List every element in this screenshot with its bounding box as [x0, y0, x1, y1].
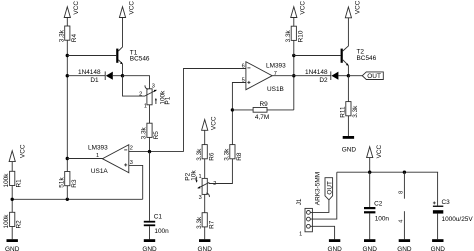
svg-text:C3: C3	[442, 199, 451, 206]
svg-text:C2: C2	[374, 200, 383, 207]
power VCC (R4 branch)	[64, 1, 80, 26]
wire US1B output	[272, 75, 294, 77]
diode D2 1N4148	[305, 69, 348, 84]
wire US1A pin2 row	[129, 150, 184, 153]
wire rail to C3	[437, 172, 439, 205]
net label OUT (right)	[362, 72, 383, 80]
wire US1B pin5 branch	[231, 83, 246, 145]
svg-text:3.3k: 3.3k	[352, 105, 359, 118]
svg-text:VCC: VCC	[300, 1, 307, 15]
wire R1 to node	[11, 186, 13, 200]
svg-text:R7: R7	[209, 220, 216, 229]
wire output node to R11	[347, 76, 349, 102]
capacitor C1 100n	[144, 214, 169, 236]
ground (R11)	[342, 136, 357, 153]
svg-text:R1: R1	[16, 179, 23, 188]
wire US1A output	[67, 158, 103, 160]
wire C1 to ground	[149, 226, 151, 239]
svg-text:2: 2	[139, 91, 142, 97]
svg-text:GND: GND	[142, 246, 157, 251]
resistor R8	[223, 145, 243, 161]
ground (C2)	[363, 239, 378, 251]
wire R5 to inverting node	[149, 137, 151, 151]
svg-text:ARK3-5MM: ARK3-5MM	[315, 172, 322, 205]
wire supply rail	[337, 171, 438, 174]
pin 8 stub (US1 V+)	[399, 172, 405, 199]
svg-text:1N4148: 1N4148	[305, 69, 328, 76]
capacitor C2 100n	[364, 200, 389, 222]
svg-text:8: 8	[399, 191, 405, 194]
svg-text:6: 6	[242, 64, 245, 70]
diode D1 1N4148	[78, 69, 123, 84]
svg-text:3.3k: 3.3k	[141, 126, 148, 139]
svg-text:LM393: LM393	[88, 145, 108, 152]
wire emitter junction to P1 top	[123, 76, 150, 89]
svg-text:3.3k: 3.3k	[196, 216, 203, 229]
ground (R7)	[198, 239, 213, 251]
svg-text:C1: C1	[154, 214, 163, 221]
wire J1 pin1 to OUT tag	[310, 200, 329, 213]
wire R7 to ground	[204, 227, 206, 239]
svg-text:OUT: OUT	[326, 181, 333, 195]
wire base T1	[67, 55, 116, 57]
resistor R9 4.7M	[232, 101, 293, 121]
capacitor C3 1000u/25V	[433, 199, 473, 223]
svg-text:3: 3	[152, 84, 155, 90]
svg-text:R4: R4	[71, 34, 78, 43]
svg-text:VCC: VCC	[73, 1, 80, 15]
wire pin2 riser to US1B pin6	[184, 69, 246, 152]
svg-text:3.3k: 3.3k	[58, 29, 65, 42]
power VCC (R1 branch)	[9, 144, 26, 171]
wire divider row	[11, 198, 143, 201]
svg-text:R9: R9	[260, 101, 269, 108]
svg-text:VCC: VCC	[128, 1, 135, 15]
svg-text:D1: D1	[90, 77, 99, 84]
svg-text:10k: 10k	[191, 170, 198, 181]
svg-text:GND: GND	[5, 246, 20, 251]
resistor R6	[196, 145, 216, 161]
ground (R2)	[5, 239, 20, 251]
power VCC (mid divider)	[202, 116, 218, 145]
svg-text:VCC: VCC	[376, 144, 383, 158]
wire rail to C2	[369, 172, 371, 207]
wire R2 to ground	[11, 227, 13, 240]
svg-text:VCC: VCC	[210, 116, 217, 130]
svg-text:100n: 100n	[375, 215, 390, 222]
svg-text:1000u/25V: 1000u/25V	[442, 216, 474, 223]
wire J1 pin2 to rail	[310, 172, 337, 219]
wire C3 to ground	[437, 214, 439, 240]
svg-text:D2: D2	[319, 77, 328, 84]
svg-text:R5: R5	[153, 131, 160, 140]
wire base T2	[294, 55, 341, 57]
svg-text:J1: J1	[296, 198, 303, 205]
svg-text:R6: R6	[209, 152, 216, 161]
svg-text:4,7M: 4,7M	[255, 114, 269, 121]
wire output node to tag	[348, 75, 362, 77]
svg-text:R8: R8	[236, 152, 243, 161]
svg-text:GND: GND	[431, 246, 446, 251]
svg-text:GND: GND	[342, 146, 357, 153]
wire T1 collector	[118, 18, 122, 52]
svg-text:3.3k: 3.3k	[285, 29, 292, 42]
ground (C1)	[142, 239, 157, 251]
svg-text:100n: 100n	[154, 228, 169, 235]
svg-text:GND: GND	[198, 246, 213, 251]
resistor R4	[58, 26, 78, 42]
wire D2 cathode	[294, 75, 331, 77]
svg-text:51k: 51k	[58, 177, 65, 188]
resistor R2	[3, 212, 23, 228]
svg-text:VCC: VCC	[354, 0, 361, 14]
svg-text:BC546: BC546	[357, 55, 377, 62]
wire R3 to divider row	[66, 186, 68, 200]
resistor R5	[141, 123, 161, 139]
wire emitter junction to P1 wiper	[123, 76, 146, 96]
wire J1 pin3 to ground	[310, 226, 334, 239]
power VCC (T1 collector)	[119, 1, 135, 18]
svg-text:1: 1	[299, 231, 302, 237]
wire D1 cathode	[67, 75, 105, 77]
svg-text:1: 1	[198, 174, 201, 180]
resistor R11	[339, 102, 359, 118]
svg-text:3: 3	[199, 195, 202, 201]
resistor R3	[58, 172, 78, 188]
wire R10 to base node	[293, 40, 295, 55]
ground (J1)	[327, 239, 342, 251]
power VCC (R10 branch)	[291, 1, 307, 27]
wire inverting node to C1	[149, 152, 151, 221]
pin 4 stub (US1 GND)	[399, 211, 405, 239]
op-amp US1B LM393	[242, 62, 287, 93]
svg-text:1: 1	[144, 104, 147, 110]
svg-text:OUT: OUT	[367, 73, 381, 80]
svg-text:GND: GND	[397, 246, 412, 251]
svg-text:VCC: VCC	[19, 144, 26, 158]
svg-text:3.3k: 3.3k	[196, 148, 203, 161]
connector J1 ARK3-5MM	[296, 172, 322, 237]
wire C2 to ground	[369, 213, 371, 239]
svg-text:GND: GND	[327, 246, 342, 251]
svg-text:100k: 100k	[3, 214, 10, 229]
wire US1A pin3	[129, 165, 143, 199]
op-amp US1A LM393	[88, 145, 133, 176]
wire node to R2	[11, 199, 13, 212]
svg-text:US1A: US1A	[91, 168, 109, 175]
svg-text:2: 2	[130, 146, 133, 152]
svg-text:US1B: US1B	[267, 86, 284, 93]
svg-text:5: 5	[242, 78, 245, 84]
svg-text:1N4148: 1N4148	[78, 69, 101, 76]
ground (pin 4)	[397, 239, 412, 251]
wire P1 to R5	[149, 105, 151, 123]
net label OUT (to J1)	[325, 178, 333, 200]
svg-text:P1: P1	[165, 96, 172, 104]
svg-text:R10: R10	[297, 30, 304, 42]
svg-text:3.3k: 3.3k	[223, 148, 230, 161]
wire T2 collector	[343, 18, 349, 51]
wire R11 to ground	[347, 116, 349, 136]
potentiometer P1 100k	[139, 84, 172, 110]
resistor R10	[285, 26, 305, 42]
wire P2 to R7	[204, 194, 206, 212]
ground (C3)	[431, 239, 446, 251]
power VCC (T2 collector)	[345, 0, 361, 18]
svg-text:4: 4	[399, 220, 405, 223]
wire R6 to P2	[204, 159, 206, 179]
svg-text:100k: 100k	[3, 173, 10, 188]
wire R8 to P2 wiper	[209, 159, 233, 184]
svg-text:R2: R2	[16, 220, 23, 229]
transistor T2	[341, 49, 377, 78]
svg-text:BC546: BC546	[130, 56, 150, 63]
resistor R1	[3, 171, 23, 187]
wire feedback riser	[292, 54, 295, 110]
svg-text:R11: R11	[339, 106, 346, 118]
svg-text:R3: R3	[71, 179, 78, 188]
wire node A vertical	[66, 40, 69, 171]
resistor R7	[196, 213, 216, 229]
potentiometer P2 10k	[185, 170, 217, 201]
power VCC (supply rail)	[367, 144, 384, 172]
svg-text:GND: GND	[363, 246, 378, 251]
svg-text:LM393: LM393	[266, 63, 286, 70]
transistor T1	[116, 49, 150, 78]
